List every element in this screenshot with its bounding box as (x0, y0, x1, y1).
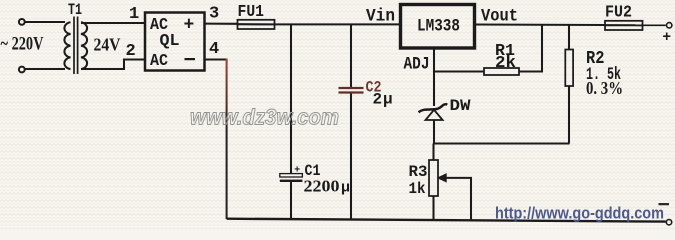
wire Vin rail (275, 23, 400, 25)
capacitor C2 top plate (339, 87, 364, 89)
wire C1 branch top (290, 24, 292, 174)
output terminal plus (667, 23, 672, 28)
wire C2 branch bottom (350, 94, 352, 220)
input terminal bottom (19, 67, 25, 73)
label minus output (659, 203, 670, 205)
wire R3 bottom (432, 196, 434, 221)
svg-text:FU1: FU1 (238, 2, 265, 21)
wire C1 branch bottom (290, 182, 292, 219)
bridge rectifier minus (185, 58, 196, 60)
transformer T1 core (73, 17, 75, 75)
svg-text:2200: 2200 (304, 177, 340, 196)
svg-text:www.dz3w.com: www.dz3w.com (190, 105, 339, 130)
wire R2 bottom (568, 86, 570, 144)
wire FU2 to output (643, 24, 666, 26)
wire through fuse FU1 (238, 23, 274, 25)
transformer T1 primary winding (64, 22, 70, 69)
regulator U1 LM338 box (401, 5, 475, 49)
svg-text:FU2: FU2 (605, 3, 632, 22)
svg-text:μ: μ (341, 180, 350, 197)
svg-text:T1: T1 (68, 1, 82, 19)
svg-text:1k: 1k (409, 180, 426, 198)
wire R3 wiper (445, 178, 471, 221)
zener diode DW cathode bar (419, 104, 448, 112)
wire R1 to Vout branch (519, 25, 542, 72)
resistor R2 body (565, 50, 573, 87)
svg-text:R3: R3 (409, 163, 428, 181)
wire pin 3 (205, 23, 238, 25)
svg-text:4: 4 (209, 40, 219, 59)
wire DW top (433, 72, 435, 107)
wire input top (25, 21, 65, 23)
potentiometer R3 body (429, 160, 438, 196)
svg-text:Vin: Vin (366, 7, 395, 27)
svg-text:LM338: LM338 (417, 17, 460, 37)
svg-text:2: 2 (126, 42, 136, 61)
wire pin 4 horizontal (205, 58, 228, 60)
svg-text:QL: QL (160, 31, 180, 50)
fuse FU2 (605, 21, 643, 30)
bottom rail (227, 219, 666, 222)
svg-text:2: 2 (373, 91, 383, 109)
fuse FU1 (238, 20, 275, 29)
wire pin 1 (81, 22, 144, 24)
input terminal top (19, 19, 25, 25)
transformer T1 secondary winding (81, 22, 87, 69)
svg-text:24V: 24V (94, 35, 121, 55)
svg-text:3: 3 (209, 5, 219, 24)
output terminal minus (666, 220, 671, 225)
svg-text:0. 3%: 0. 3% (586, 78, 623, 98)
potentiometer R3 wiper arrow (438, 174, 447, 182)
wire ADJ to R1 (434, 70, 485, 72)
svg-text:+: + (184, 16, 195, 36)
capacitor C2 bottom plate (339, 91, 364, 93)
svg-text:ADJ: ADJ (404, 54, 430, 74)
wire R3 top (432, 144, 434, 161)
svg-text:DW: DW (450, 97, 471, 115)
capacitor C1 top plate (280, 174, 303, 177)
svg-text:1: 1 (129, 5, 139, 24)
svg-text:2k: 2k (495, 53, 516, 72)
svg-text:~ 220V: ~ 220V (1, 35, 44, 55)
wire C2 branch top (350, 24, 352, 87)
resistor R1 body (484, 68, 519, 75)
wire pin 4 vertical (reddish fading) (226, 59, 228, 219)
wire ADJ node to R2 (433, 142, 570, 144)
svg-text:+: + (662, 30, 671, 46)
wire pin 2 (81, 60, 144, 70)
wire DW bottom (433, 120, 435, 144)
svg-text:AC: AC (150, 51, 168, 70)
bridge rectifier QL box (145, 13, 205, 71)
wire ADJ pin (433, 48, 435, 72)
wire input bottom (25, 68, 65, 70)
zener diode DW triangle (426, 110, 443, 120)
wire through fuse FU2 (605, 24, 643, 26)
svg-text:http://www.go-gddq.com: http://www.go-gddq.com (495, 203, 664, 222)
capacitor C1 bottom plate (280, 180, 303, 182)
svg-text:μ: μ (383, 91, 393, 109)
wire R2 top (568, 25, 570, 50)
wire Vout rail (475, 23, 606, 26)
